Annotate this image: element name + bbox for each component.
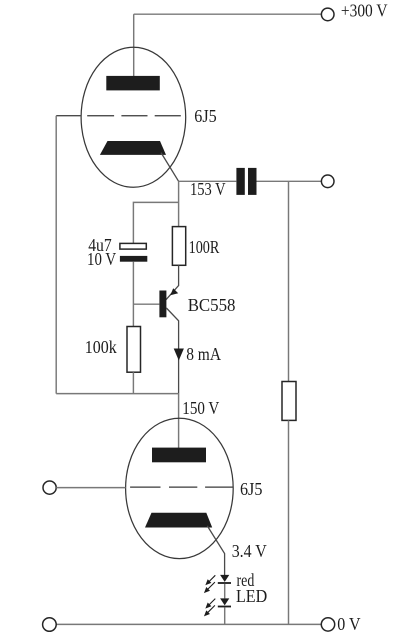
wire: 153V node down to 100R (178, 181, 180, 226)
wire: C2 bottom to 100k (132, 262, 134, 327)
terminal 0 V (321, 618, 334, 631)
wire: D1 to D2 (224, 584, 226, 599)
wire: 0V ground rail (56, 623, 321, 625)
wire: V1 anode lead (133, 14, 135, 76)
V1 cathode (100, 141, 166, 155)
svg-text:8 mA: 8 mA (186, 344, 221, 364)
V2 anode plate (152, 448, 206, 463)
LED D2 cathode bar (218, 606, 231, 608)
wire: V1 grid stub to left rail (56, 115, 81, 117)
wire: right rail upper (288, 181, 290, 381)
wire: V1 cathode lead (161, 153, 179, 182)
D1 light arrow 1 (206, 575, 215, 584)
wire: input to V2 grid (56, 487, 125, 489)
D1 light arrow 2 (205, 582, 215, 592)
wire: +300V top rail (134, 13, 322, 15)
V2 cathode (145, 513, 212, 528)
wire: D2 to ground rail (224, 607, 226, 624)
wire: Q1 emitter (166, 265, 179, 300)
terminal ground left (43, 618, 57, 632)
LED D1 triangle (220, 575, 229, 582)
wire: Q1 base (133, 303, 159, 305)
terminal output (321, 175, 334, 188)
wire: 100k bottom (132, 372, 134, 393)
svg-text:LED: LED (236, 586, 267, 606)
svg-text:BC558: BC558 (188, 295, 236, 315)
LED D1 cathode bar (218, 582, 231, 584)
triode V1 envelope (81, 47, 186, 187)
V1 grid dashed line (87, 115, 181, 117)
svg-text:153 V: 153 V (190, 179, 226, 199)
resistor 100R (172, 227, 185, 266)
svg-text:10 V: 10 V (87, 249, 116, 269)
resistor R load (unlabeled) (282, 382, 296, 421)
current arrow 8 mA (174, 349, 184, 361)
wire: branch to C2 top (133, 202, 178, 243)
svg-text:6J5: 6J5 (240, 479, 262, 499)
wire: C1 to output terminal (257, 180, 322, 182)
capacitor C2 bottom plate (120, 256, 147, 262)
V1 anode plate (106, 76, 160, 91)
V2 grid dashed line (130, 486, 233, 488)
LED D2 triangle (220, 598, 229, 605)
wire: 153V node horizontal (179, 180, 237, 182)
svg-text:0 V: 0 V (337, 614, 360, 634)
capacitor C1 right plate (248, 168, 257, 195)
capacitor C1 left plate (236, 168, 244, 195)
triode V2 envelope (126, 418, 234, 558)
svg-text:+300 V: +300 V (341, 0, 388, 20)
wire: right rail lower (288, 420, 290, 624)
capacitor C2 top plate (120, 243, 146, 249)
svg-text:100R: 100R (189, 237, 220, 257)
wire: left bootstrap rail (55, 116, 57, 394)
svg-text:150 V: 150 V (182, 398, 219, 418)
Q1 emitter arrow (170, 288, 178, 295)
wire: Q1 collector (166, 308, 178, 393)
svg-text:3.4 V: 3.4 V (232, 541, 267, 561)
resistor 100k (127, 327, 141, 373)
svg-text:6J5: 6J5 (194, 106, 216, 126)
svg-text:100k: 100k (85, 337, 117, 357)
terminal +300 V (321, 8, 334, 21)
wire: V2 cathode lead (207, 526, 224, 575)
D2 light arrow 2 (205, 605, 215, 615)
wire: feedback bottom horizontal (56, 393, 178, 395)
D2 light arrow 1 (206, 599, 215, 608)
terminal input (43, 481, 56, 494)
wire: V2 anode lead (178, 393, 180, 449)
transistor Q1 base bar (159, 291, 166, 318)
